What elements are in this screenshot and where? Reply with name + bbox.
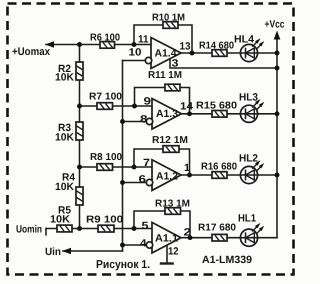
- resistor R4 10K: [76, 187, 83, 205]
- power symbol +Vcc arrow: [274, 31, 281, 40]
- wire +Vcc rail: [276, 39, 278, 238]
- wire R10 left leg: [134, 25, 163, 45]
- junction A1.1 output: [188, 235, 193, 240]
- svg-text:5: 5: [142, 220, 149, 232]
- junction divider tap 4 (Uomin): [77, 226, 82, 231]
- terminal Uomin tick: [45, 229, 47, 235]
- junction A1.4 output: [190, 51, 195, 56]
- svg-text:10K: 10K: [55, 181, 74, 193]
- wire R13 right leg to A1.1 output: [181, 211, 191, 238]
- junction A1.4 pin 11 node: [132, 42, 137, 47]
- wire row2 tap to A1.3 pin 9: [80, 105, 153, 107]
- wire R11 left leg: [135, 88, 166, 107]
- LED HL3: [240, 99, 264, 122]
- svg-text:10K: 10K: [55, 132, 74, 144]
- LED HL2: [240, 160, 264, 183]
- svg-text:HL4: HL4: [234, 34, 254, 46]
- wire row1 tap to A1.4 pin 11: [80, 44, 152, 46]
- svg-text:1: 1: [184, 162, 190, 174]
- junction A1.2 pin 7 node: [132, 165, 137, 170]
- resistor R7 100: [97, 103, 113, 110]
- resistor R14 680: [212, 50, 227, 57]
- svg-text:HL2: HL2: [239, 153, 258, 165]
- svg-text:HL3: HL3: [239, 92, 258, 104]
- wire A1.2 output row to +Vcc rail: [181, 174, 278, 176]
- wire A1.4 output row to +Vcc rail: [181, 52, 277, 54]
- junction Uin bus pin 8: [120, 119, 125, 124]
- wire A1.3 output row to +Vcc rail: [181, 113, 277, 115]
- junction rail row2: [275, 111, 280, 116]
- svg-text:4: 4: [140, 238, 147, 250]
- wire Uin bus to A1.4 pin 10: [123, 60, 146, 62]
- svg-text:R14 680: R14 680: [199, 41, 234, 52]
- resistor R15 680: [212, 111, 227, 118]
- junction divider tap 3: [77, 165, 82, 170]
- junction rail row1: [275, 51, 280, 56]
- wire R12 right leg to A1.2 output: [180, 149, 190, 175]
- svg-text:R7 100: R7 100: [89, 92, 122, 103]
- resistor R2 10K: [76, 62, 83, 80]
- op-amp A1.1: [146, 222, 181, 253]
- svg-text:R17 680: R17 680: [198, 223, 236, 234]
- svg-text:9: 9: [144, 96, 152, 108]
- resistor R12 1M: [163, 146, 179, 153]
- svg-text:R8 100: R8 100: [90, 152, 122, 163]
- svg-text:A1.1: A1.1: [155, 233, 178, 245]
- svg-text:11: 11: [138, 34, 149, 46]
- wire Uomin row through R5 and R9 to A1.1 pin 5: [46, 228, 152, 230]
- resistor R9 100: [98, 225, 114, 232]
- junction A1.1 pin 5 node: [132, 226, 137, 231]
- wire R12 left leg: [134, 149, 163, 167]
- svg-text:R6 100: R6 100: [90, 33, 120, 44]
- resistor R6 100: [100, 42, 115, 49]
- wire R13 left leg: [134, 211, 165, 229]
- svg-text:+Vcc: +Vcc: [265, 19, 285, 31]
- wire row3 tap to A1.2 pin 7: [80, 166, 153, 168]
- wire R10 right leg to A1.4 output: [178, 25, 192, 53]
- wire A1.4 pin 3 to +Vcc rail: [170, 59, 277, 68]
- svg-text:HL1: HL1: [238, 213, 256, 225]
- svg-text:Uin: Uin: [45, 246, 61, 258]
- terminal arrow +Uomax: [45, 41, 54, 47]
- wire R11 right leg to A1.3 output: [180, 88, 190, 114]
- junction A1.2 output: [187, 173, 192, 178]
- svg-text:Uomin: Uomin: [16, 224, 42, 236]
- wire Uin bus vertical: [122, 61, 124, 252]
- resistor R16 680: [212, 172, 227, 179]
- resistor R11 1M: [165, 84, 180, 91]
- wire Uin bus to A1.2 pin 6: [123, 182, 147, 184]
- svg-text:Рисунок 1.: Рисунок 1.: [96, 259, 150, 271]
- LED HL1: [240, 223, 264, 246]
- svg-text:R9 100: R9 100: [86, 215, 123, 226]
- svg-text:+Uomax: +Uomax: [12, 46, 51, 58]
- op-amp A1.3: [146, 99, 181, 130]
- LED HL4: [240, 38, 264, 61]
- svg-text:R11 1M: R11 1M: [148, 70, 182, 81]
- resistor R17 680: [212, 234, 227, 241]
- wire A1.1 output row to +Vcc rail corner: [181, 237, 278, 239]
- junction Uin bus pin 6: [120, 180, 125, 185]
- svg-text:13: 13: [180, 41, 191, 53]
- ground pin 12 of A1.1: [160, 245, 174, 263]
- wire Uin horizontal: [63, 250, 123, 252]
- junction divider tap 2: [77, 104, 82, 109]
- resistor R10 1M: [163, 22, 178, 29]
- svg-text:6: 6: [139, 174, 147, 186]
- svg-text:14: 14: [180, 101, 193, 113]
- resistor R3 10K: [76, 122, 83, 140]
- wire Uin bus to A1.3 pin 8: [123, 121, 147, 123]
- op-amp A1.4: [145, 38, 181, 69]
- svg-text:R13 1M: R13 1M: [155, 199, 190, 210]
- wire Uin bus to A1.1 pin 4: [123, 244, 147, 246]
- svg-text:10: 10: [129, 47, 142, 59]
- junction rail row3: [275, 173, 280, 178]
- svg-text:R16 680: R16 680: [201, 162, 237, 173]
- wire +Uomax to divider tap: [46, 44, 80, 46]
- resistor R13 1M: [165, 208, 181, 215]
- junction divider tap 1: [77, 42, 82, 47]
- svg-text:A1.3: A1.3: [156, 108, 178, 120]
- svg-text:3: 3: [172, 58, 179, 70]
- svg-text:8: 8: [140, 114, 148, 126]
- svg-text:A1-LM339: A1-LM339: [202, 254, 252, 266]
- svg-text:10K: 10K: [50, 214, 70, 226]
- terminal arrow Uin: [62, 248, 71, 254]
- wire divider bus (taps for R2..R5 chain): [79, 45, 81, 229]
- svg-text:R12 1M: R12 1M: [152, 135, 188, 146]
- svg-text:7: 7: [143, 157, 150, 169]
- svg-text:R10 1M: R10 1M: [152, 13, 185, 24]
- svg-text:A1.2: A1.2: [156, 171, 178, 183]
- svg-text:10K: 10K: [55, 72, 74, 84]
- resistor R5 10K: [57, 225, 72, 232]
- junction A1.3 output: [187, 111, 192, 116]
- op-amp A1.2: [146, 160, 181, 191]
- junction Uin bus pin 4: [120, 243, 125, 248]
- resistor R8 100: [97, 164, 113, 171]
- svg-text:R15 680: R15 680: [196, 101, 237, 112]
- svg-text:12: 12: [168, 246, 179, 258]
- junction rail pin3: [275, 66, 280, 71]
- junction A1.3 pin 9 node: [132, 104, 137, 109]
